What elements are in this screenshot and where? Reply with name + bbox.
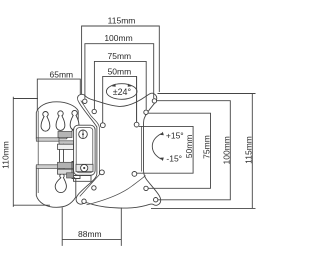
wall plate fold flange left <box>36 138 59 141</box>
svg-text:88mm: 88mm <box>78 229 102 239</box>
plate hole 100 bottom-left <box>82 199 86 203</box>
svg-text:100mm: 100mm <box>221 136 231 164</box>
dim 50mm top <box>103 67 137 123</box>
svg-text:100mm: 100mm <box>104 33 132 43</box>
50mm right drop overlay <box>136 77 138 122</box>
VESA plate outline <box>76 93 161 208</box>
dim 65mm <box>37 69 80 110</box>
bottom keyhole <box>55 174 66 193</box>
arm top flange <box>58 144 74 149</box>
plate left edge thickness line <box>80 101 100 197</box>
svg-text:75mm: 75mm <box>202 135 212 159</box>
bottom section top flange <box>36 165 64 169</box>
arm bottom flange <box>58 169 74 174</box>
wall plate fold flange step <box>59 141 74 145</box>
nut bracket foot <box>74 176 92 182</box>
dim 88mm bottom <box>62 208 121 246</box>
bracket knob top <box>79 130 88 139</box>
svg-text:±24°: ±24° <box>113 87 132 97</box>
svg-text:-15°: -15° <box>166 154 182 164</box>
plate hole 100 top-right <box>152 99 156 103</box>
tilt bracket <box>74 125 96 175</box>
keyhole slot 1 <box>41 111 50 131</box>
plate hole 50 bottom-right <box>132 172 137 177</box>
plate hole 75 bottom-right <box>144 186 148 190</box>
plate hole 50 bottom-left <box>100 170 105 175</box>
svg-text:65mm: 65mm <box>49 69 73 79</box>
svg-text:50mm: 50mm <box>184 135 194 159</box>
plate hole 50 top-right <box>134 122 139 127</box>
svg-text:110mm: 110mm <box>0 141 10 169</box>
svg-text:50mm: 50mm <box>108 67 132 77</box>
svg-text:+15°: +15° <box>166 131 184 141</box>
bracket nut bottom <box>76 164 93 171</box>
tilt arc +15/-15 <box>152 131 183 164</box>
plate hole 100 top-left <box>83 99 87 103</box>
wall plate top section <box>36 102 78 139</box>
dim 75mm right <box>148 113 211 188</box>
arm mid line <box>58 162 74 168</box>
svg-text:115mm: 115mm <box>108 16 136 26</box>
wall plate left edge inner line <box>37 111 39 194</box>
nut bracket tab <box>72 162 80 179</box>
gray tab on wall plate <box>58 132 72 138</box>
swivel ellipse ±24° <box>106 84 137 100</box>
keyhole slot 2 <box>56 111 65 131</box>
dim 100mm top <box>85 33 154 99</box>
dim 115mm right <box>151 94 256 209</box>
wall plate bottom section <box>36 166 76 207</box>
plate bottom flange inner curve <box>87 176 146 205</box>
plate hole 100 bottom-right <box>154 198 158 202</box>
arm vertical channel <box>60 144 64 174</box>
dim 75mm top <box>94 51 146 110</box>
dim 110mm left <box>0 97 50 207</box>
svg-text:115mm: 115mm <box>243 136 253 164</box>
washer dark piece <box>67 173 74 178</box>
plate hole 75 top-right <box>144 110 148 114</box>
dim 50mm right <box>137 126 194 173</box>
dim 100mm right <box>157 101 232 200</box>
plate hole 75 top-left <box>92 109 96 113</box>
svg-text:75mm: 75mm <box>107 51 131 61</box>
plate right waist edge thickness <box>140 127 142 172</box>
plate hole 75 bottom-left <box>92 186 96 190</box>
keyhole slot 3 <box>70 110 79 130</box>
plate hole 50 top-left <box>100 123 105 128</box>
dim 115mm top <box>82 16 160 94</box>
